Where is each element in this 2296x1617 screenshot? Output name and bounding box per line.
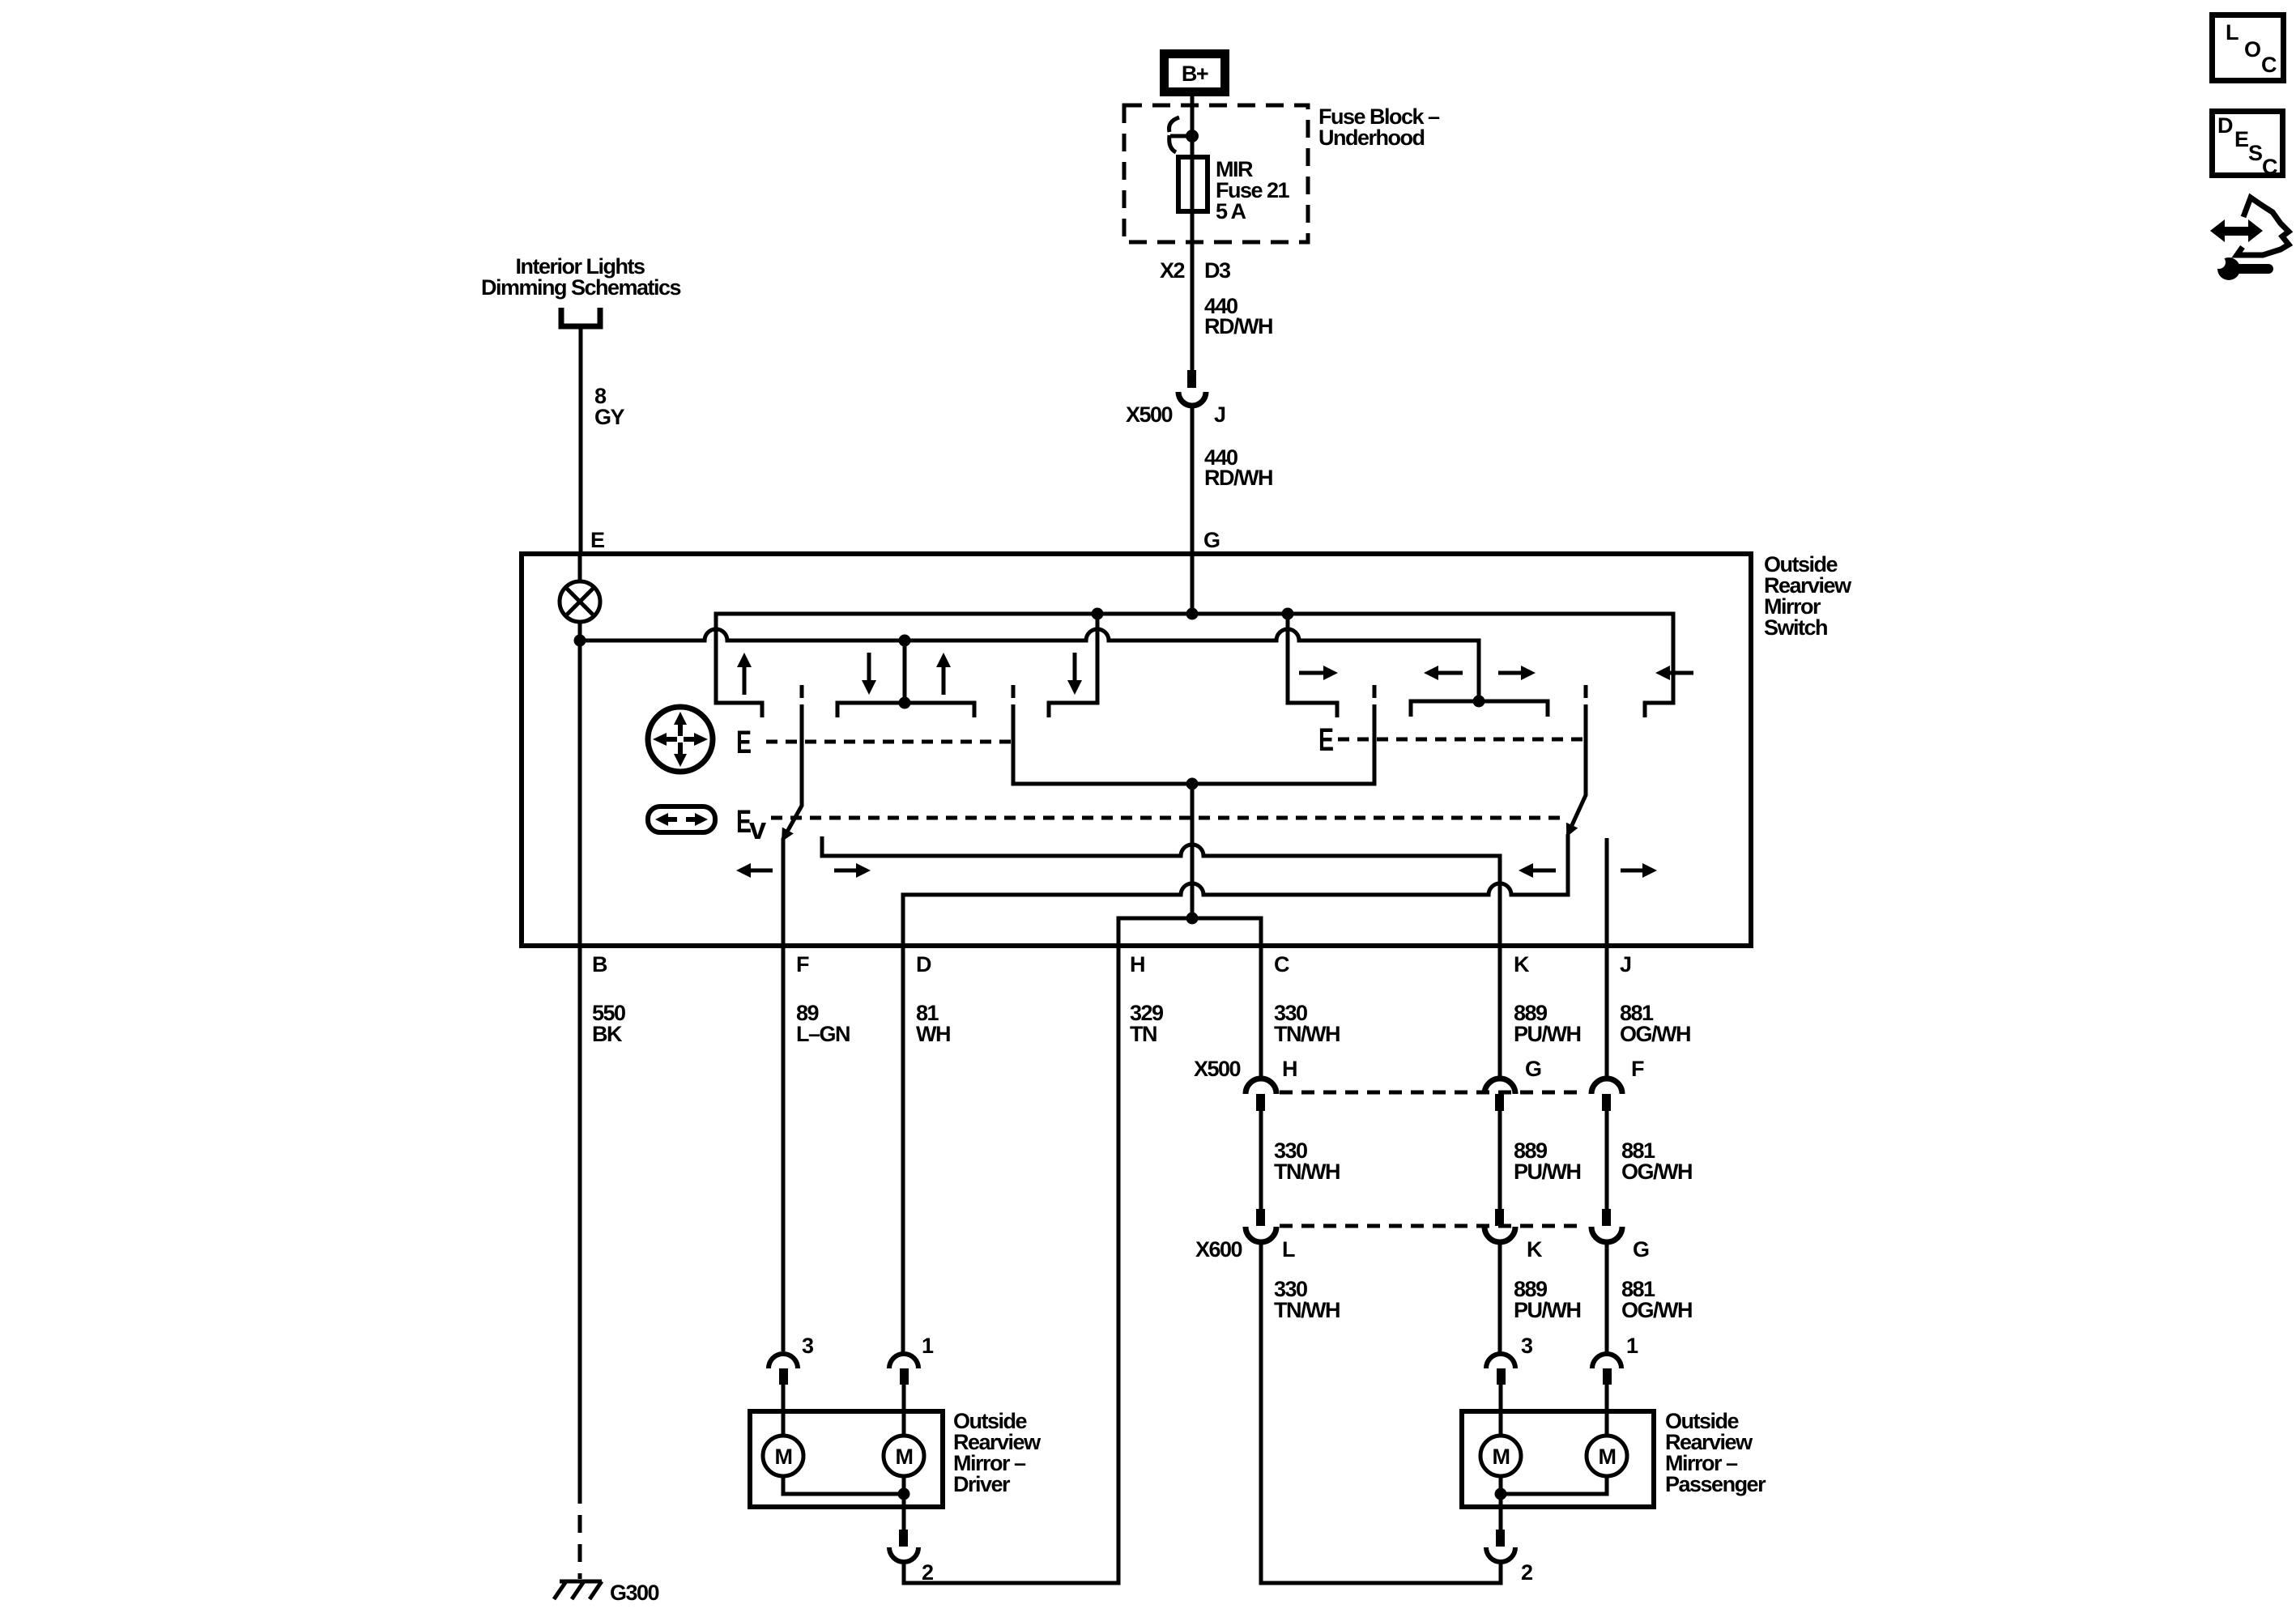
svg-text:Dimming Schematics: Dimming Schematics bbox=[481, 275, 681, 300]
ground G300 bbox=[554, 1581, 659, 1605]
svg-text:Switch: Switch bbox=[1764, 615, 1827, 640]
arrow left driver bottom bbox=[736, 863, 773, 878]
off-page ref Interior Lights Dimming Schematics bbox=[481, 254, 681, 326]
wire 329 TN return loop bbox=[904, 946, 1118, 1583]
svg-text:L: L bbox=[2226, 20, 2238, 45]
svg-text:OG/WH: OG/WH bbox=[1621, 1298, 1692, 1322]
svg-text:M: M bbox=[1599, 1445, 1616, 1469]
connector passenger pin 3 bbox=[1486, 1334, 1533, 1385]
svg-text:3: 3 bbox=[802, 1334, 814, 1358]
passenger mirror label bbox=[1665, 1409, 1766, 1496]
bus tap clip symbol bbox=[1169, 117, 1190, 152]
wire driver motors common bbox=[783, 1476, 904, 1530]
svg-text:TN/WH: TN/WH bbox=[1274, 1022, 1340, 1046]
connector X600 K bbox=[1485, 1209, 1543, 1262]
svg-text:1: 1 bbox=[1626, 1334, 1638, 1358]
contact driver center bar bbox=[837, 635, 974, 718]
connector X500 F bbox=[1591, 1057, 1644, 1111]
wire second bus with hops bbox=[580, 629, 1479, 701]
svg-text:3: 3 bbox=[1521, 1334, 1533, 1358]
svg-text:D: D bbox=[2217, 113, 2233, 138]
node H C tap bbox=[1186, 913, 1199, 925]
arrow left passenger1 bbox=[1424, 666, 1463, 680]
wire 881 OG/WH mid bbox=[1607, 1111, 1692, 1209]
svg-text:E: E bbox=[1318, 722, 1334, 758]
joystick icon bbox=[648, 707, 713, 772]
motor driver horizontal bbox=[884, 1436, 924, 1476]
wire E into lamp bbox=[578, 554, 582, 582]
svg-text:PU/WH: PU/WH bbox=[1514, 1160, 1581, 1184]
svg-text:PU/WH: PU/WH bbox=[1514, 1298, 1581, 1322]
node lamp bus junction bbox=[574, 635, 586, 647]
wire B+ to fuse bbox=[1191, 96, 1195, 370]
wire K contact line with hop bbox=[822, 836, 1500, 1079]
svg-text:L: L bbox=[1282, 1237, 1295, 1262]
motor passenger vertical bbox=[1480, 1436, 1521, 1476]
arrow up driver1 bbox=[737, 653, 752, 695]
svg-text:TN/WH: TN/WH bbox=[1274, 1160, 1340, 1184]
wire top bus with end contacts bbox=[716, 614, 1673, 717]
connector X500 J inline bbox=[1126, 370, 1225, 427]
wire 330 TN/WH low bbox=[1261, 1242, 1501, 1583]
svg-text:G: G bbox=[1203, 528, 1220, 552]
svg-text:G300: G300 bbox=[610, 1581, 659, 1605]
motor passenger horizontal bbox=[1587, 1436, 1627, 1476]
wire lamp to B terminal bbox=[578, 622, 582, 946]
blade tip passenger D-side bbox=[1584, 685, 1588, 698]
switch name label bbox=[1764, 552, 1852, 640]
svg-text:5 A: 5 A bbox=[1216, 199, 1246, 223]
arrow right passenger1 bbox=[1299, 666, 1338, 680]
node bus G junction bbox=[1186, 608, 1199, 620]
svg-text:OG/WH: OG/WH bbox=[1621, 1160, 1692, 1184]
connector driver pin 3 bbox=[769, 1334, 814, 1385]
wire 330 TN/WH label bbox=[1274, 1001, 1340, 1046]
blade tip driver F bbox=[800, 685, 804, 698]
svg-text:M: M bbox=[1493, 1445, 1510, 1469]
linkage E driver vertical bbox=[736, 725, 1013, 760]
contact driver down (A4) bbox=[1049, 614, 1097, 717]
svg-text:L–GN: L–GN bbox=[796, 1022, 850, 1046]
passenger mirror box bbox=[1462, 1411, 1654, 1507]
svg-text:OG/WH: OG/WH bbox=[1620, 1022, 1690, 1046]
arrow up driver2 bbox=[936, 653, 951, 695]
wire 881 OG/WH low bbox=[1607, 1242, 1692, 1352]
node bus right tap bbox=[1282, 608, 1294, 620]
svg-text:E: E bbox=[736, 725, 752, 760]
wire J fixed contact bbox=[1605, 838, 1609, 946]
svg-text:J: J bbox=[1620, 952, 1631, 977]
fuse block label bbox=[1318, 104, 1440, 150]
wire 440 RD/WH upper bbox=[1204, 294, 1272, 338]
wire H C bar bbox=[1118, 918, 1261, 946]
svg-text:M: M bbox=[896, 1445, 913, 1469]
svg-text:C: C bbox=[1274, 952, 1289, 977]
arrow right passenger2 bbox=[1498, 666, 1536, 680]
linkage E passenger vertical bbox=[1318, 722, 1584, 758]
svg-text:2: 2 bbox=[1521, 1560, 1532, 1585]
svg-text:C: C bbox=[2262, 155, 2277, 179]
horizontal selector icon bbox=[648, 806, 715, 832]
wire C to X500 bbox=[1259, 946, 1263, 1079]
terminal letters bbox=[592, 952, 1631, 977]
arrow down driver2 bbox=[1067, 653, 1082, 695]
svg-text:GY: GY bbox=[594, 405, 625, 429]
node driver common bbox=[898, 1488, 910, 1500]
svg-text:F: F bbox=[796, 952, 809, 977]
connector X500 row dashed bbox=[1280, 1091, 1586, 1095]
connector X500 H bbox=[1194, 1057, 1297, 1111]
connector driver pin 2 bbox=[889, 1530, 933, 1585]
arrow right driver bottom bbox=[834, 863, 871, 878]
pin labels X2 D3 bbox=[1160, 258, 1231, 283]
arrow left passenger2 bbox=[1655, 666, 1693, 680]
arrow right passenger bottom bbox=[1621, 863, 1657, 878]
svg-text:BK: BK bbox=[592, 1022, 623, 1046]
svg-text:X500: X500 bbox=[1194, 1057, 1241, 1081]
wire 550 BK label bbox=[592, 1001, 625, 1046]
svg-text:RD/WH: RD/WH bbox=[1204, 314, 1272, 338]
svg-text:F: F bbox=[1631, 1057, 1644, 1081]
wire 440 RD/WH lower bbox=[1192, 406, 1272, 554]
svg-text:D: D bbox=[916, 952, 931, 977]
arrow left passenger bottom bbox=[1519, 863, 1556, 878]
svg-text:K: K bbox=[1514, 952, 1530, 977]
connector passenger pin 1 bbox=[1592, 1334, 1638, 1385]
svg-text:1: 1 bbox=[922, 1334, 934, 1358]
node common center bbox=[1186, 778, 1199, 790]
connector X600 row dashed bbox=[1280, 1224, 1586, 1228]
wire 330 TN/WH mid bbox=[1261, 1111, 1340, 1209]
wire J pin1 to motor bbox=[1605, 1385, 1609, 1436]
contact passenger center bar bbox=[1411, 696, 1548, 717]
svg-text:v: v bbox=[749, 812, 766, 846]
svg-text:WH: WH bbox=[916, 1022, 950, 1046]
connector passenger pin 2 bbox=[1486, 1530, 1532, 1585]
wire 889 PU/WH mid bbox=[1500, 1111, 1581, 1209]
connector X600 L bbox=[1195, 1209, 1295, 1262]
svg-text:O: O bbox=[2244, 37, 2260, 62]
wire J to X500 bbox=[1605, 946, 1609, 1079]
wire 8 GY bbox=[581, 329, 625, 554]
linkage E horizontal bbox=[736, 804, 1565, 846]
blade driver F with arrowhead bbox=[776, 704, 802, 1351]
wire passenger motors common bbox=[1501, 1476, 1607, 1530]
arrow down driver1 bbox=[862, 653, 876, 695]
svg-text:TN: TN bbox=[1130, 1022, 1157, 1046]
icon DESC box bbox=[2213, 112, 2283, 180]
connector X500 G bbox=[1485, 1057, 1541, 1111]
wire G into box bbox=[1191, 554, 1195, 614]
wire D contact line with hops bbox=[903, 834, 1568, 946]
svg-text:RD/WH: RD/WH bbox=[1204, 466, 1272, 490]
svg-text:M: M bbox=[775, 1445, 792, 1469]
svg-text:Driver: Driver bbox=[953, 1472, 1011, 1496]
svg-text:B: B bbox=[592, 952, 607, 977]
svg-text:E: E bbox=[590, 528, 604, 552]
node: fuse feed junction bbox=[1186, 130, 1199, 143]
svg-text:H: H bbox=[1282, 1057, 1297, 1081]
icon LOC box bbox=[2213, 15, 2284, 81]
svg-text:Passenger: Passenger bbox=[1665, 1472, 1766, 1496]
outside rearview mirror switch box bbox=[522, 554, 1751, 946]
blade tip driver common bbox=[1012, 685, 1016, 698]
driver mirror label bbox=[953, 1409, 1042, 1496]
wire K pin3 to motor bbox=[1499, 1385, 1503, 1436]
fuse MIR Fuse 21 5A bbox=[1178, 157, 1290, 223]
blade passenger D-side with arrowhead bbox=[1561, 704, 1586, 840]
connector X600 G bbox=[1591, 1209, 1649, 1262]
svg-text:H: H bbox=[1130, 952, 1144, 977]
wire F pin3 to motor bbox=[782, 1385, 786, 1436]
wire 889 PU/WH low bbox=[1500, 1242, 1581, 1352]
svg-text:X600: X600 bbox=[1195, 1237, 1242, 1262]
node bus left tap bbox=[1092, 608, 1104, 620]
wire 881 OG/WH label bbox=[1620, 1001, 1690, 1046]
wire D pin1 to motor bbox=[903, 946, 904, 1436]
svg-text:Underhood: Underhood bbox=[1318, 126, 1424, 150]
wire center tap down bbox=[1191, 784, 1195, 918]
svg-text:S: S bbox=[2248, 141, 2262, 165]
blade common driver to passenger bbox=[1013, 704, 1374, 784]
battery feed B+ bbox=[1165, 54, 1225, 92]
svg-text:D3: D3 bbox=[1204, 258, 1231, 283]
svg-text:PU/WH: PU/WH bbox=[1514, 1022, 1581, 1046]
illumination lamp bbox=[560, 581, 600, 622]
fuse block dashed box bbox=[1124, 105, 1308, 242]
svg-text:C: C bbox=[2261, 53, 2277, 77]
wire 550 BK dashed to ground bbox=[578, 1515, 582, 1579]
icon jump arrow with wrench bbox=[2210, 198, 2289, 280]
wire 89 L-GN label bbox=[796, 1001, 850, 1046]
svg-text:E: E bbox=[2234, 127, 2248, 151]
svg-text:G: G bbox=[1633, 1237, 1649, 1262]
svg-text:J: J bbox=[1214, 402, 1225, 427]
svg-text:X2: X2 bbox=[1160, 258, 1185, 283]
blade tip passenger common bbox=[1373, 685, 1377, 698]
driver mirror box bbox=[750, 1411, 943, 1507]
node passenger common bbox=[1495, 1488, 1507, 1500]
wire 329 TN label bbox=[1130, 1001, 1164, 1046]
connector driver pin 1 bbox=[889, 1334, 934, 1385]
svg-text:G: G bbox=[1525, 1057, 1541, 1081]
wire 81 WH label bbox=[916, 1001, 950, 1046]
wire 889 PU/WH label bbox=[1514, 1001, 1581, 1046]
svg-text:B+: B+ bbox=[1182, 62, 1208, 86]
svg-text:X500: X500 bbox=[1126, 402, 1173, 427]
contact passenger left (B1) bbox=[1288, 614, 1337, 717]
wire 550 BK run bbox=[578, 946, 582, 1504]
svg-text:K: K bbox=[1527, 1237, 1543, 1262]
svg-text:TN/WH: TN/WH bbox=[1274, 1298, 1340, 1322]
motor driver vertical bbox=[763, 1436, 803, 1476]
